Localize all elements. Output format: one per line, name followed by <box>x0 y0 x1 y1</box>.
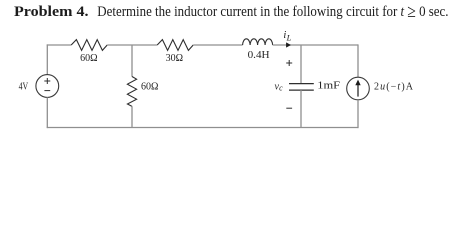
minus sign for vc polarity <box>286 107 292 109</box>
current arrow iL on top wire <box>286 42 291 47</box>
svg-text:4V: 4V <box>19 81 29 92</box>
wire: top rail left segment <box>47 44 71 46</box>
svg-text:1mF: 1mF <box>317 81 340 92</box>
plus sign inside V1 <box>44 78 50 84</box>
capacitor C1 1mF <box>289 84 314 91</box>
inductor L1 0.4H <box>243 39 273 45</box>
resistor R1 60ohm (top left) <box>71 40 107 51</box>
plus sign for vc polarity <box>286 60 292 66</box>
svg-text:60Ω: 60Ω <box>141 81 158 92</box>
wire: top rail between L1 and capacitor node <box>273 44 358 46</box>
svg-text:2u(−t)A: 2u(−t)A <box>374 81 414 92</box>
svg-text:60Ω: 60Ω <box>80 53 97 64</box>
current source I1 <box>347 77 370 100</box>
resistor R2 30ohm (top middle) <box>157 40 193 51</box>
svg-text:30Ω: 30Ω <box>166 53 183 64</box>
wire: middle branch upper <box>131 45 133 77</box>
svg-text:Problem 4.: Problem 4. <box>14 4 89 20</box>
minus sign inside V1 <box>44 90 50 92</box>
svg-text:iL: iL <box>283 30 291 42</box>
title: Problem 4 statement <box>14 1 449 21</box>
svg-text:Determine the inductor current: Determine the inductor current in the fo… <box>97 1 448 21</box>
svg-text:0.4H: 0.4H <box>248 50 270 61</box>
wire: top rail between R1 and R2 (node at middle branch) <box>107 44 157 46</box>
wire: right branch upper <box>357 44 359 77</box>
wire: left branch lower <box>46 97 48 128</box>
voltage source V1 4V <box>36 75 59 98</box>
wire: capacitor branch upper <box>300 45 302 84</box>
arrow inside I1 pointing up <box>357 83 359 97</box>
svg-text:vc: vc <box>275 81 284 92</box>
wire: middle branch lower <box>131 106 133 127</box>
wire: capacitor branch lower <box>300 90 302 127</box>
wire: right branch lower <box>357 100 359 128</box>
wire: bottom rail <box>47 127 359 129</box>
wire: top rail between R2 and L1 <box>193 44 242 46</box>
resistor R3 60ohm (middle vertical) <box>127 77 136 107</box>
wire: left branch upper <box>46 44 48 74</box>
